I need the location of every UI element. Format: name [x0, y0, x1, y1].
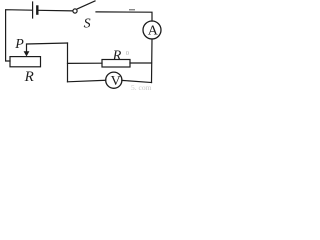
wire slider to vertical	[27, 43, 68, 52]
resistor R0	[102, 60, 130, 68]
svg-text:R: R	[24, 69, 34, 85]
wire R0 to left vertical	[68, 62, 103, 64]
slider arrow P	[24, 51, 30, 56]
ammeter A	[143, 21, 161, 39]
svg-text:P: P	[14, 37, 24, 52]
wire right to R0	[130, 62, 152, 64]
wire top-left and left side	[6, 10, 32, 61]
wire left vertical branch	[67, 43, 69, 82]
wire ammeter down right side	[151, 39, 154, 83]
rheostat R	[10, 57, 41, 67]
svg-text:R: R	[112, 49, 122, 64]
wire jog mark	[130, 9, 135, 11]
switch S	[73, 1, 95, 13]
wire bottom left to voltmeter	[68, 80, 106, 82]
svg-text:5. com: 5. com	[131, 83, 152, 92]
svg-text:V: V	[111, 74, 121, 89]
svg-text:A: A	[148, 24, 159, 39]
battery	[33, 2, 38, 18]
label R0	[112, 49, 129, 64]
wire battery to switch	[39, 9, 73, 12]
svg-text:S: S	[84, 17, 91, 32]
voltmeter V	[106, 72, 122, 88]
wire switch to top-right corner	[96, 12, 152, 21]
svg-text:0: 0	[126, 50, 129, 57]
wire voltmeter to bottom right corner	[122, 80, 152, 82]
